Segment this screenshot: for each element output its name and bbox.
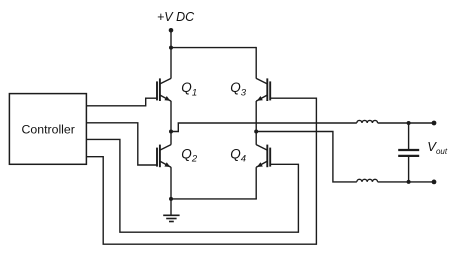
controller U1 (box) xyxy=(9,94,86,165)
wire: Q1 collector lead xyxy=(170,48,172,79)
junction: ground node xyxy=(169,197,173,201)
wire: Q4 collector lead xyxy=(255,132,257,145)
transistor Q4 xyxy=(256,145,270,168)
inductor L1 (upper) xyxy=(357,120,378,123)
inductor L2 (lower) xyxy=(357,179,378,182)
wire: controller output 3 loop to Q4 gate xyxy=(86,139,298,232)
svg-text:Controller: Controller xyxy=(22,122,75,136)
svg-text:+V DC: +V DC xyxy=(157,10,195,24)
wire: right midpoint to output filter (lower rail) xyxy=(256,132,357,182)
junction node B: right half-bridge midpoint xyxy=(254,130,258,134)
wire: controller output 1 to Q1 gate (with step) xyxy=(86,98,157,106)
wire: top rail to Q3 branch xyxy=(170,47,256,49)
wire: Q3 emitter lead to right midpoint xyxy=(255,101,257,132)
ground xyxy=(163,199,179,222)
wire: capacitor node to Vout+ terminal xyxy=(409,122,434,124)
node Vout- terminal xyxy=(432,180,437,185)
wire: Q2 emitter lead to ground rail xyxy=(170,167,172,199)
wire: capacitor bottom node to Vout- terminal xyxy=(409,181,434,183)
wire: controller output 4 loop to Q3 gate xyxy=(86,98,316,244)
wire: lower inductor to capacitor bottom node xyxy=(378,181,409,183)
junction: top rail tap xyxy=(169,46,173,50)
wire: Q2 collector lead xyxy=(170,132,172,145)
wire: +V DC terminal down to top rail junction xyxy=(170,30,172,47)
node +V DC supply terminal xyxy=(169,28,174,33)
wire: Q3 collector lead xyxy=(255,47,257,79)
transistor Q3 xyxy=(256,78,270,101)
junction: capacitor bottom node xyxy=(407,180,411,184)
capacitor C1 (output filter) xyxy=(398,123,419,182)
junction node A: left half-bridge midpoint xyxy=(169,130,173,134)
wire: upper inductor to capacitor node xyxy=(378,122,409,124)
node Vout+ terminal xyxy=(432,121,437,126)
wire: ground rail (Q2/Q4 emitters) xyxy=(171,198,257,200)
wire: Q1 emitter lead to left midpoint xyxy=(170,101,172,132)
wire: controller output 2 to Q2 gate xyxy=(86,123,157,165)
wire: Q4 emitter lead down to ground rail xyxy=(255,167,257,199)
transistor Q1 xyxy=(157,78,171,101)
wire: left midpoint to output filter (upper rail) xyxy=(171,123,357,132)
transistor Q2 xyxy=(157,145,171,168)
junction: capacitor top node xyxy=(407,121,411,125)
